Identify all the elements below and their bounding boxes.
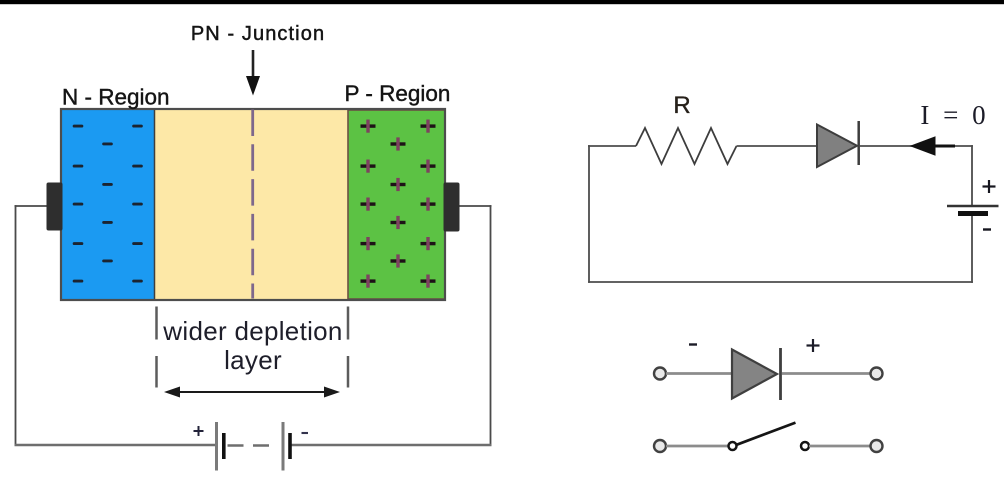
wire bottom right to battery xyxy=(290,444,492,446)
svg-text:I = 0: I = 0 xyxy=(920,100,985,130)
wire left electrode to left rail xyxy=(15,205,47,207)
n region xyxy=(61,109,155,300)
diode D2 cathode bar xyxy=(779,348,782,400)
battery B1 cell1 short plate xyxy=(222,433,226,459)
diode terminal right xyxy=(871,368,883,380)
current arrow xyxy=(910,136,956,155)
wire right rail lower xyxy=(971,216,973,283)
battery B1 plus label xyxy=(194,426,204,436)
battery B2 minus label xyxy=(983,228,991,230)
wire terminal to diode xyxy=(666,372,732,375)
diode D1 triangle xyxy=(817,125,857,168)
battery B1 cell2 short plate xyxy=(288,433,292,459)
wire resistor to diode xyxy=(737,145,819,147)
wire bottom left to battery xyxy=(15,444,217,446)
diode plus label xyxy=(807,339,820,352)
diode terminal left xyxy=(654,368,666,380)
switch blade xyxy=(737,423,796,445)
battery B1 cell1 long plate xyxy=(215,422,218,471)
diode D1 cathode bar xyxy=(857,121,860,165)
battery B2 long plate xyxy=(947,205,999,207)
p region xyxy=(348,110,445,299)
depletion width marker right dashed tick xyxy=(347,307,350,388)
switch terminal left xyxy=(654,440,666,452)
right electrode xyxy=(444,183,460,232)
minus carriers in N region xyxy=(73,125,143,283)
switch terminal right xyxy=(871,440,883,452)
wire left rail down xyxy=(15,205,17,445)
depletion region xyxy=(155,109,349,300)
svg-text:N - Region: N - Region xyxy=(62,85,170,110)
wire terminal to pole xyxy=(666,445,728,448)
svg-text:R: R xyxy=(673,92,690,119)
junction boundary N side xyxy=(154,109,156,300)
diode minus label xyxy=(689,343,697,345)
semiconductor body outline xyxy=(61,109,445,300)
wire diode to right terminal xyxy=(782,372,871,375)
svg-text:wider depletion: wider depletion xyxy=(162,316,342,346)
wire right electrode to right rail xyxy=(460,205,492,207)
wire diode to right rail xyxy=(860,145,973,147)
PN junction dashed line xyxy=(251,110,254,299)
left electrode xyxy=(47,183,63,231)
switch pole contact xyxy=(729,442,737,450)
depletion width marker left dashed tick xyxy=(155,307,158,388)
plus carriers in P region xyxy=(361,120,436,288)
wire right rail down xyxy=(490,205,492,445)
PN junction pointer arrow xyxy=(246,50,260,96)
battery B2 short plate xyxy=(958,211,988,216)
battery B1 cell2 long plate xyxy=(282,422,285,471)
depletion width double arrow xyxy=(164,387,340,398)
battery B1 minus label xyxy=(302,432,309,434)
wire right rail upper xyxy=(971,145,973,205)
switch throw contact xyxy=(801,442,809,450)
resistor R xyxy=(636,128,737,164)
wire contact to right terminal xyxy=(809,445,871,448)
battery B2 plus label xyxy=(983,180,996,193)
battery B1 dashed link xyxy=(228,444,270,447)
svg-text:layer: layer xyxy=(224,345,282,375)
diode D2 triangle xyxy=(732,350,777,399)
wire top left segment xyxy=(588,145,636,147)
wire left rail xyxy=(588,145,590,283)
wire bottom rail xyxy=(588,281,973,283)
svg-text:P - Region: P - Region xyxy=(345,81,451,106)
svg-text:PN - Junction: PN - Junction xyxy=(191,23,325,45)
